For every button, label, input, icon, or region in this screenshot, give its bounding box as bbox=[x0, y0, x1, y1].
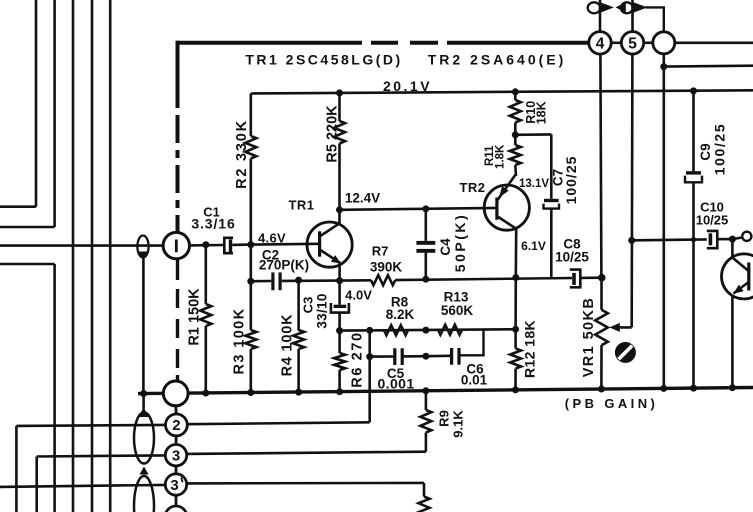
wire feedback line R8 R13 bbox=[340, 329, 516, 330]
svg-text:560K: 560K bbox=[441, 303, 474, 318]
svg-text:C3: C3 bbox=[301, 297, 316, 314]
wire vertical harness line 4 bbox=[91, 0, 94, 512]
capacitor C3 bbox=[301, 281, 349, 331]
svg-text:R3 100K: R3 100K bbox=[232, 307, 248, 374]
wire 20.1V supply rail bbox=[251, 90, 753, 93]
resistor R7 bbox=[340, 244, 572, 286]
terminal node 4 bbox=[589, 32, 611, 54]
potentiometer VR1 bbox=[581, 54, 608, 389]
transistor TR1 bbox=[288, 198, 352, 281]
svg-text:C4: C4 bbox=[438, 238, 453, 256]
svg-text:3: 3 bbox=[170, 477, 178, 494]
terminal node 2 bbox=[166, 414, 188, 445]
wire vertical harness line 1 bbox=[0, 0, 36, 207]
svg-text:R4 100K: R4 100K bbox=[280, 314, 296, 377]
wire ground rail bbox=[138, 388, 753, 394]
transistor TR3 bbox=[722, 239, 753, 388]
shield ellipse 1 bbox=[134, 413, 154, 464]
resistor R8 bbox=[384, 295, 415, 336]
svg-text:13.1V: 13.1V bbox=[519, 178, 549, 190]
svg-text:33/10: 33/10 bbox=[315, 293, 330, 328]
terminal node bottom partial bbox=[165, 506, 187, 512]
VR1 wiper arrow bbox=[609, 54, 632, 332]
open terminal circle bbox=[732, 232, 751, 241]
svg-text:R5 220K: R5 220K bbox=[325, 105, 341, 163]
capacitor C8 bbox=[555, 237, 602, 288]
junction dot R10 R11 C7 bbox=[512, 131, 519, 138]
label 4.6V bbox=[258, 231, 286, 246]
resistor R4 bbox=[280, 277, 305, 393]
wire node3' left bbox=[0, 485, 165, 487]
dashed border below node 1 bbox=[176, 259, 179, 382]
svg-text:TR2: TR2 bbox=[459, 180, 485, 195]
wire between top terminals bbox=[611, 41, 753, 44]
resistor R14 partial bbox=[419, 497, 430, 512]
svg-text:2: 2 bbox=[172, 417, 180, 434]
wire node2 right bbox=[187, 357, 369, 425]
svg-text:TR1 2SC458LG(D): TR1 2SC458LG(D) bbox=[245, 52, 402, 68]
svg-text:0.001: 0.001 bbox=[377, 376, 414, 392]
svg-text:10/25: 10/25 bbox=[555, 250, 589, 265]
wire vertical harness line 5 bbox=[109, 0, 112, 512]
resistor R11 bbox=[484, 135, 521, 176]
capacitor C7 bbox=[515, 134, 579, 277]
wire input to node 1 bbox=[0, 244, 163, 247]
label TR1 part no bbox=[245, 52, 402, 68]
resistor R9 bbox=[420, 391, 465, 452]
resistor R6 bbox=[334, 327, 365, 392]
svg-text:R2 330K: R2 330K bbox=[234, 119, 250, 189]
junction dot C8 VR1 bbox=[598, 274, 606, 282]
shield arrow 2 bbox=[139, 467, 148, 475]
svg-text:R7: R7 bbox=[372, 244, 389, 259]
svg-text:18K: 18K bbox=[535, 101, 549, 124]
shield arrow to ground bbox=[139, 394, 149, 418]
wire node3 left bbox=[37, 455, 166, 512]
junction dots on emitter line bbox=[336, 274, 519, 284]
svg-text:6.1V: 6.1V bbox=[521, 239, 546, 253]
resistor R10 bbox=[510, 88, 549, 135]
capacitor C6 bbox=[452, 348, 488, 388]
wire branch at y66 bbox=[664, 64, 753, 68]
svg-text:TR2 2SA640(E): TR2 2SA640(E) bbox=[428, 52, 567, 68]
wire VR1 wiper to C10 bbox=[628, 237, 707, 244]
wire spare terminal drop bbox=[660, 54, 667, 389]
capacitor C10 bbox=[696, 200, 730, 249]
junction dots on ground rail bbox=[140, 384, 736, 397]
label 4.0V bbox=[345, 288, 372, 303]
wire 12.4V TR1 collector to TR2 base bbox=[336, 206, 497, 213]
dashed block border top bbox=[176, 41, 589, 45]
svg-text:100/25: 100/25 bbox=[563, 156, 579, 205]
terminal node 3 bbox=[165, 445, 186, 474]
svg-text:20.1V: 20.1V bbox=[383, 78, 432, 94]
svg-text:4.0V: 4.0V bbox=[345, 288, 372, 303]
wire node3' right bbox=[187, 483, 424, 497]
svg-text:50P(K): 50P(K) bbox=[452, 213, 468, 272]
junction dots C5 C6 line bbox=[366, 353, 429, 360]
wire node1 to C1 bbox=[190, 244, 225, 247]
svg-text:(PB GAIN): (PB GAIN) bbox=[565, 396, 658, 411]
label 12.4V bbox=[345, 191, 380, 206]
label 20.1V bbox=[383, 78, 432, 94]
capacitor C5 bbox=[377, 348, 414, 391]
svg-text:TR1: TR1 bbox=[288, 198, 314, 213]
wire shield drop bbox=[142, 257, 145, 394]
wire C5 C6 branch bbox=[370, 330, 484, 357]
wire vertical harness line 3 bbox=[72, 0, 75, 512]
crossover symbol left bbox=[588, 2, 614, 13]
svg-text:390K: 390K bbox=[370, 260, 403, 275]
terminal spare circle bbox=[653, 32, 675, 54]
svg-text:VR1 50KB: VR1 50KB bbox=[581, 297, 597, 378]
svg-text:R6 270: R6 270 bbox=[350, 331, 366, 387]
junction dot TR3 base bbox=[729, 236, 736, 243]
label 13.1V bbox=[519, 178, 549, 190]
svg-text:3.3/16: 3.3/16 bbox=[191, 216, 235, 232]
svg-text:8.2K: 8.2K bbox=[386, 307, 415, 322]
crossover symbol right bbox=[616, 2, 648, 13]
capacitor C1 bbox=[191, 205, 250, 254]
capacitor C2 bbox=[259, 248, 309, 291]
resistor R2 bbox=[234, 94, 256, 249]
terminal node 5 bbox=[621, 32, 643, 54]
svg-text:4.6V: 4.6V bbox=[258, 231, 286, 246]
shield loop on input wire bbox=[137, 236, 148, 260]
svg-text:270P(K): 270P(K) bbox=[259, 258, 309, 273]
svg-text:100/25: 100/25 bbox=[712, 123, 728, 175]
svg-text:10/25: 10/25 bbox=[696, 213, 729, 228]
svg-text:R9: R9 bbox=[437, 410, 452, 427]
svg-text:12.4V: 12.4V bbox=[345, 191, 380, 206]
junction dots feedback line bbox=[366, 326, 519, 334]
wire node2 left bbox=[16, 425, 165, 512]
terminal 5 riser bbox=[631, 0, 634, 32]
svg-text:R1 150K: R1 150K bbox=[187, 288, 203, 346]
svg-text:R12 18K: R12 18K bbox=[522, 320, 538, 378]
screwdriver adjust symbol bbox=[615, 342, 636, 363]
wire node3 right bbox=[187, 452, 426, 454]
label 6.1V bbox=[521, 239, 546, 253]
svg-text:1.8K: 1.8K bbox=[495, 144, 507, 169]
svg-text:3: 3 bbox=[172, 448, 180, 465]
wire vertical harness line 2 lower bbox=[0, 264, 55, 512]
resistor R5 bbox=[325, 89, 346, 209]
capacitor C4 bbox=[416, 205, 468, 279]
svg-text:9.1K: 9.1K bbox=[451, 410, 466, 438]
svg-text:4: 4 bbox=[596, 35, 605, 52]
terminal node 1 bbox=[163, 232, 189, 258]
svg-text:0.01: 0.01 bbox=[461, 373, 488, 388]
label TR2 part no bbox=[428, 52, 567, 68]
resistor R1 bbox=[187, 241, 212, 393]
dashed block border left bbox=[176, 41, 180, 233]
transistor TR2 bbox=[459, 174, 529, 278]
resistor R13 bbox=[438, 290, 473, 335]
wire crossover to spare terminal bbox=[646, 7, 664, 31]
resistor R12 bbox=[510, 278, 537, 390]
svg-text:5: 5 bbox=[628, 35, 637, 52]
capacitor C9 bbox=[685, 87, 728, 388]
resistor R3 bbox=[232, 245, 257, 393]
wire base of TR1 bbox=[251, 243, 320, 246]
wire TR1 emitter line bbox=[250, 279, 340, 282]
terminal 4 riser bbox=[599, 0, 602, 32]
shield ellipse 2 bbox=[134, 476, 154, 512]
wire vertical harness line 2 upper bbox=[0, 0, 55, 227]
label PB GAIN bbox=[565, 396, 658, 411]
shield terminal circle bbox=[163, 381, 188, 414]
terminal node 3' bbox=[165, 474, 186, 506]
